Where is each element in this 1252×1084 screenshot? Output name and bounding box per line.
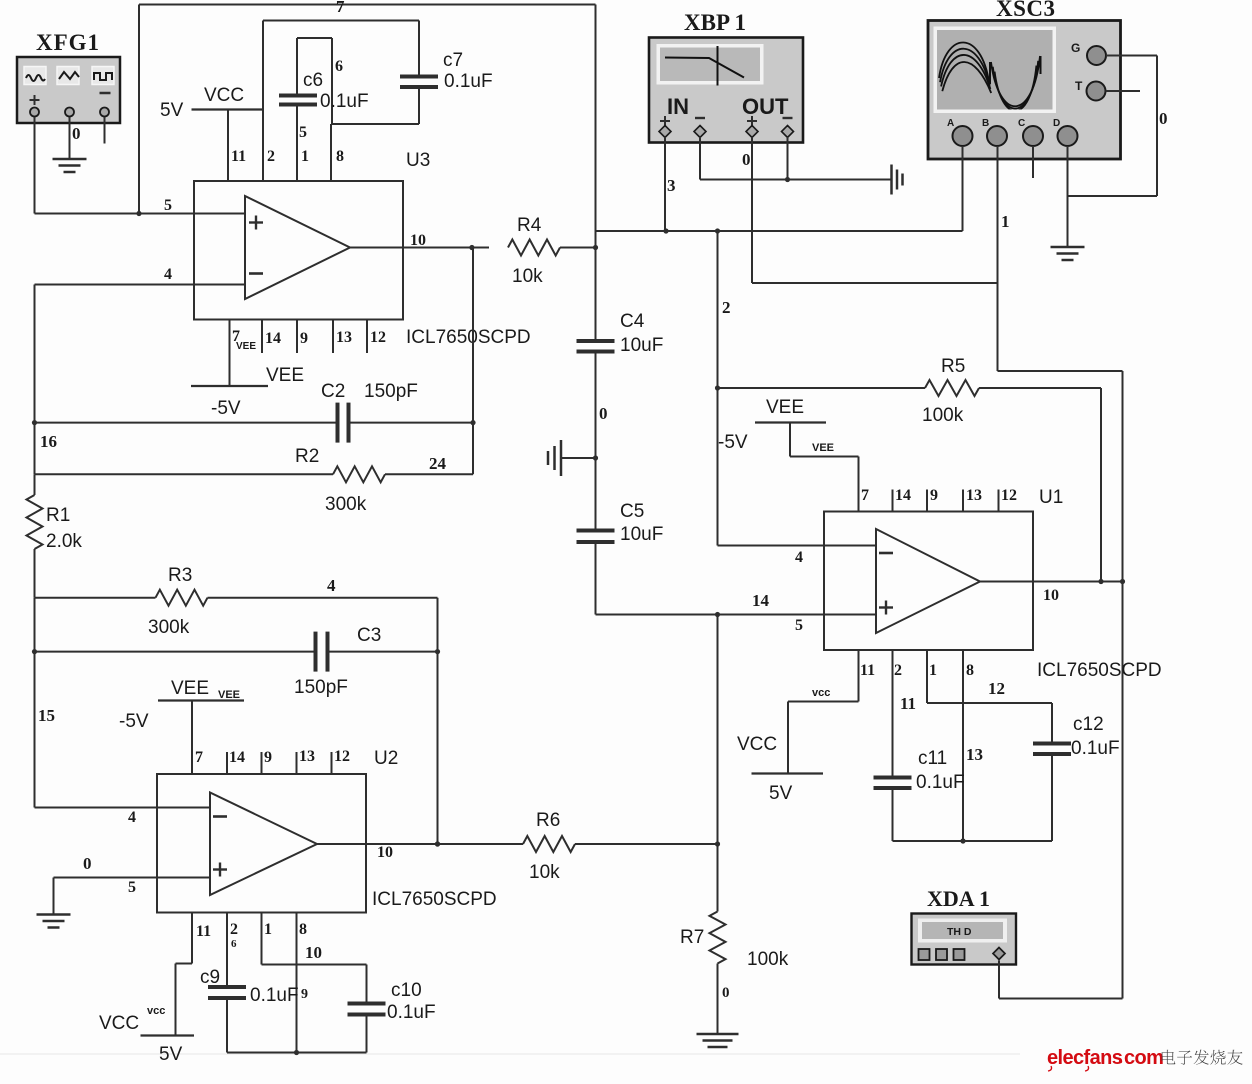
label VCC U1 xyxy=(737,734,777,755)
label c11 xyxy=(918,748,947,769)
svg-text:9: 9 xyxy=(301,987,308,1002)
svg-text:12: 12 xyxy=(334,748,350,765)
wire c10 down xyxy=(366,1015,368,1053)
svg-text:VEE: VEE xyxy=(236,341,256,352)
wire c6 top rectangle xyxy=(297,38,332,124)
wire c7 bottom lead xyxy=(418,87,420,124)
svg-text:10: 10 xyxy=(377,844,393,861)
svg-text:14: 14 xyxy=(895,487,911,504)
svg-text:10k: 10k xyxy=(529,862,560,883)
node 4 label R3 xyxy=(327,576,336,595)
pin labels U2 bottom xyxy=(196,921,307,940)
label XFG1 xyxy=(36,30,100,55)
node 4 pin label U1 xyxy=(795,549,803,566)
svg-text:G: G xyxy=(1071,41,1080,55)
wire net1 row OUT+ to B xyxy=(752,282,998,284)
svg-text:c11: c11 xyxy=(918,748,947,769)
svg-text:100k: 100k xyxy=(747,949,789,970)
svg-text:2: 2 xyxy=(230,921,238,938)
svg-text:c10: c10 xyxy=(391,980,422,1001)
svg-text:11: 11 xyxy=(900,694,916,713)
svg-text:5: 5 xyxy=(299,124,307,141)
wire C2 row left xyxy=(35,422,338,424)
watermark chinese 电子发烧友 xyxy=(1162,1050,1243,1065)
wire U1 pin1 net12 row xyxy=(927,702,1052,704)
svg-text:VEE: VEE xyxy=(218,689,240,701)
svg-text:VCC: VCC xyxy=(204,85,244,106)
pin labels U1 top xyxy=(861,487,1017,504)
svg-text:7: 7 xyxy=(336,0,345,16)
node 0 XSC3 xyxy=(1159,109,1168,128)
wire VEE to U2 pin7 xyxy=(191,701,193,775)
svg-text:13: 13 xyxy=(966,487,982,504)
label R4 value 10k xyxy=(512,266,543,287)
wire U3 pin 5 input row xyxy=(35,213,195,215)
node 0 XFG1 xyxy=(72,124,81,143)
wire net1 column down to U1 out xyxy=(1120,371,1125,999)
svg-text:6: 6 xyxy=(231,938,237,950)
power VEE bar U1 xyxy=(755,421,826,423)
wire C2 row right xyxy=(349,422,474,424)
wire XBP1 OUT- down xyxy=(787,137,789,180)
pin labels U1 bottom xyxy=(860,662,974,679)
svg-text:R2: R2 xyxy=(295,446,319,467)
svg-text:U3: U3 xyxy=(406,150,430,171)
svg-text:XFG1: XFG1 xyxy=(36,30,100,55)
node 3 label xyxy=(667,176,676,195)
wire net14 column down xyxy=(715,615,720,912)
node 10 label U3 out xyxy=(410,232,426,249)
wire C3 row left xyxy=(35,651,316,653)
ground R7 xyxy=(697,1034,739,1047)
wire ground stub center xyxy=(561,457,596,459)
svg-text:-5V: -5V xyxy=(718,432,748,453)
svg-text:7: 7 xyxy=(861,487,869,504)
node 0 label U2 xyxy=(83,854,92,873)
wire VCC to U3 pin 11 xyxy=(227,110,229,182)
svg-text:VCC: VCC xyxy=(99,1013,139,1034)
svg-text:R7: R7 xyxy=(680,927,704,948)
svg-text:c7: c7 xyxy=(443,50,463,71)
svg-text:1: 1 xyxy=(1001,212,1010,231)
svg-text:12: 12 xyxy=(1001,487,1017,504)
svg-text:0.1uF: 0.1uF xyxy=(1071,738,1120,759)
wire U1 bottom pin stubs xyxy=(859,650,964,841)
label VEE U2 xyxy=(171,678,209,699)
wire XFG1 minus stub xyxy=(104,117,106,144)
label R6 xyxy=(536,810,560,831)
wire U3 pin2 column up xyxy=(262,21,264,182)
svg-text:2: 2 xyxy=(267,148,275,165)
capacitor c10 xyxy=(348,1004,386,1015)
power VCC bar U2 xyxy=(141,1034,195,1036)
ground XBP1 net0 xyxy=(892,165,903,195)
node 12 label U1 xyxy=(988,679,1005,698)
svg-text:8: 8 xyxy=(966,662,974,679)
node 1 label xyxy=(1001,212,1010,231)
label VCC U3 xyxy=(204,85,244,106)
wire XFG1 plus output down xyxy=(34,117,36,214)
svg-text:XBP 1: XBP 1 xyxy=(684,10,746,35)
label C5 value 10uF xyxy=(620,524,663,545)
wire c11 down xyxy=(892,788,894,841)
svg-text:2: 2 xyxy=(722,298,731,317)
svg-text:C4: C4 xyxy=(620,311,645,332)
label R2 value 300k xyxy=(325,494,367,515)
wire U2 output row xyxy=(317,841,523,846)
label R3 value 300k xyxy=(148,617,190,638)
capacitor C4 xyxy=(577,341,615,352)
wire c9 down xyxy=(226,998,228,1053)
wire U1 output row xyxy=(980,579,1123,584)
label c6 value 0.1uF xyxy=(320,91,369,112)
svg-text:VEE: VEE xyxy=(171,678,209,699)
label c10 xyxy=(391,980,422,1001)
label U1 xyxy=(1039,487,1063,508)
svg-text:13: 13 xyxy=(299,748,315,765)
wire U3 output row xyxy=(350,245,489,250)
svg-text:9: 9 xyxy=(264,749,272,766)
node 4 pin label U2 xyxy=(128,809,136,826)
label U3 part ICL7650SCPD xyxy=(406,327,531,348)
svg-text:0.1uF: 0.1uF xyxy=(320,91,369,112)
wire XBP1 IN- down xyxy=(699,137,701,180)
svg-text:XSC3: XSC3 xyxy=(996,0,1056,21)
wire U2 pin11 to VCC xyxy=(176,964,193,1036)
wire XBP1 IN+ down to net3 xyxy=(664,137,666,231)
svg-text:vcc: vcc xyxy=(812,687,830,699)
ground U2 input xyxy=(37,915,71,928)
label R3 xyxy=(168,565,192,586)
svg-text:4: 4 xyxy=(128,809,136,826)
label VEE U1 xyxy=(766,397,804,418)
node 5 pin label U2 xyxy=(128,879,136,896)
svg-text:c9: c9 xyxy=(200,967,220,988)
label 5V U1 xyxy=(769,783,793,804)
node 11 label U1 xyxy=(900,694,916,713)
pin labels U2 top xyxy=(195,748,350,766)
svg-text:9: 9 xyxy=(300,330,308,347)
wire U1 pin4 row xyxy=(718,545,877,547)
instrument XDA1 distortion analyzer xyxy=(912,914,1017,965)
node 9 small label xyxy=(301,987,308,1002)
svg-text:0.1uF: 0.1uF xyxy=(387,1002,436,1023)
label R5 xyxy=(941,356,965,377)
svg-text:2: 2 xyxy=(894,662,902,679)
svg-text:12: 12 xyxy=(370,329,386,346)
svg-text:U2: U2 xyxy=(374,748,398,769)
wire inner top horizontal xyxy=(263,20,419,22)
svg-text:10: 10 xyxy=(1043,587,1059,604)
wire top net from XFG1 area to center column xyxy=(139,4,596,6)
svg-text:13: 13 xyxy=(336,329,352,346)
node 24 label xyxy=(429,454,447,473)
svg-text:300k: 300k xyxy=(148,617,190,638)
node 6 label xyxy=(335,58,343,75)
node 0 center xyxy=(599,404,608,423)
wire U1 caps bottom rail xyxy=(893,838,1053,843)
svg-text:XDA 1: XDA 1 xyxy=(927,886,990,911)
power VEE bar U3 xyxy=(191,385,268,387)
svg-text:7: 7 xyxy=(195,749,203,766)
wire U2 pin5 row xyxy=(54,877,158,879)
wire U2 caps bottom rail xyxy=(227,1050,367,1055)
wire U2 top pin stubs xyxy=(227,752,332,774)
label C3 xyxy=(357,625,381,646)
wire net1 row right xyxy=(998,370,1123,372)
label -5V U1 xyxy=(718,432,748,453)
wire pin8 junction horizontal xyxy=(332,123,419,125)
label c12 value 0.1uF xyxy=(1071,738,1120,759)
node 15 label xyxy=(38,706,55,725)
resistor R5 xyxy=(718,380,1102,396)
label R7 xyxy=(680,927,704,948)
wire c12 top lead xyxy=(1051,703,1053,744)
wire left column upper xyxy=(32,285,37,475)
svg-text:300k: 300k xyxy=(325,494,367,515)
op-amp U2 ICL7650SCPD xyxy=(157,774,366,913)
label small vcc U2 xyxy=(147,1005,165,1017)
wire XSC3 T stub xyxy=(1106,90,1141,92)
wire U3 pin 4 input row xyxy=(35,284,195,286)
svg-text:9: 9 xyxy=(930,487,938,504)
svg-text:VEE: VEE xyxy=(766,397,804,418)
node 10 label U1 out xyxy=(1043,587,1059,604)
pin labels U3 top xyxy=(231,148,344,165)
wire net 14 row xyxy=(596,612,825,617)
svg-text:0: 0 xyxy=(722,985,730,1001)
svg-text:4: 4 xyxy=(327,576,336,595)
svg-text:OUT: OUT xyxy=(742,94,789,119)
resistor R6 xyxy=(523,836,718,852)
op-amp U1 ICL7650SCPD xyxy=(824,512,1033,651)
label -5V U3 xyxy=(211,398,241,419)
label C2 xyxy=(321,381,345,402)
ground XSC3 xyxy=(1051,247,1085,260)
svg-text:150pF: 150pF xyxy=(364,381,418,402)
svg-text:12: 12 xyxy=(988,679,1005,698)
label C3 value 150pF xyxy=(294,677,348,698)
faint scan line xyxy=(0,1053,1020,1055)
svg-text:1: 1 xyxy=(264,921,272,938)
label R1 xyxy=(46,505,70,526)
resistor R4 xyxy=(508,240,596,256)
label c12 xyxy=(1073,714,1104,735)
wire c10 top lead xyxy=(366,965,368,1004)
svg-text:IN: IN xyxy=(667,94,689,119)
wire U2 bottom pin stubs xyxy=(192,913,297,1053)
svg-text:R1: R1 xyxy=(46,505,70,526)
svg-text:10uF: 10uF xyxy=(620,524,663,545)
capacitor c9 xyxy=(208,987,246,998)
label c6 xyxy=(303,70,323,91)
label c7 value 0.1uF xyxy=(444,71,493,92)
label c9 value 0.1uF xyxy=(250,985,299,1006)
pin labels U3 bottom xyxy=(232,328,386,347)
node 2 label xyxy=(722,298,731,317)
wire vertical left x139 xyxy=(136,5,141,217)
wire XSC3 C stub xyxy=(1032,146,1034,178)
resistor R2 xyxy=(35,466,474,482)
node 5 label c6 xyxy=(299,124,307,141)
svg-text:0.1uF: 0.1uF xyxy=(250,985,299,1006)
wire XSC3 ground column xyxy=(1156,56,1158,197)
svg-text:0: 0 xyxy=(83,854,92,873)
wire XDA1 to net1 xyxy=(999,961,1123,999)
label C5 xyxy=(620,501,644,522)
label small vcc net U1 xyxy=(812,687,830,699)
wire XBP1 OUT+ down xyxy=(751,137,753,283)
label XBP1 xyxy=(684,10,746,35)
wire U3 bottom pin stubs xyxy=(230,320,368,387)
svg-text:150pF: 150pF xyxy=(294,677,348,698)
svg-text:0: 0 xyxy=(72,124,81,143)
label C4 value 10uF xyxy=(620,335,663,356)
label R1 value 2.0k xyxy=(46,531,82,552)
power VCC bar U1 xyxy=(752,772,824,774)
svg-text:14: 14 xyxy=(229,749,245,766)
capacitor c6 xyxy=(279,96,317,105)
label c10 value 0.1uF xyxy=(387,1002,436,1023)
node 6 small label U2 xyxy=(231,938,237,950)
wire XSC3 B down net1 xyxy=(997,146,999,371)
label R6 value 10k xyxy=(529,862,560,883)
svg-text:VEE: VEE xyxy=(266,365,304,386)
label U2 xyxy=(374,748,398,769)
node 10 label U2 out xyxy=(377,844,393,861)
node 5 pin label U3 xyxy=(164,197,172,214)
wire left column lower xyxy=(32,598,37,808)
wire XSC3 G to right xyxy=(1106,55,1157,57)
wire U1 top pin stubs xyxy=(893,490,999,512)
capacitor c11 xyxy=(874,778,912,789)
wire XSC3 D row xyxy=(1068,195,1158,197)
svg-text:R4: R4 xyxy=(517,215,542,236)
label C2 value 150pF xyxy=(364,381,418,402)
svg-text:24: 24 xyxy=(429,454,447,473)
wire U1 pin11 to VCC xyxy=(788,702,859,774)
svg-text:1: 1 xyxy=(301,148,309,165)
node 13 label U1 xyxy=(966,745,983,764)
capacitor C3 xyxy=(316,632,328,672)
svg-text:10: 10 xyxy=(305,943,322,962)
power VEE bar U2 xyxy=(158,699,244,701)
instrument XFG1 function generator xyxy=(17,57,120,123)
svg-text:5: 5 xyxy=(164,197,172,214)
svg-text:11: 11 xyxy=(860,662,875,679)
svg-text:14: 14 xyxy=(265,330,281,347)
label R7 value 100k xyxy=(747,949,789,970)
svg-text:3: 3 xyxy=(667,176,676,195)
svg-text:C: C xyxy=(1018,118,1025,129)
svg-text:10uF: 10uF xyxy=(620,335,663,356)
wire net3 row to scope A xyxy=(596,228,963,233)
svg-text:C5: C5 xyxy=(620,501,644,522)
svg-text:A: A xyxy=(947,118,954,129)
label 5V U3 supply xyxy=(160,100,184,121)
ground XFG1 common xyxy=(53,159,87,172)
svg-text:8: 8 xyxy=(336,148,344,165)
wire center column x595 xyxy=(593,5,598,342)
wire c12 down xyxy=(1051,754,1053,841)
capacitor C2 xyxy=(338,403,349,443)
wire R5 down to U1 output xyxy=(1100,388,1102,582)
svg-text:0: 0 xyxy=(742,150,751,169)
node 7 top wire xyxy=(336,0,345,16)
label c11 value 0.1uF xyxy=(916,772,965,793)
label 5V U2 xyxy=(159,1044,183,1065)
node 4 pin label U3 xyxy=(164,266,172,283)
svg-text:-5V: -5V xyxy=(211,398,241,419)
label c9 xyxy=(200,967,220,988)
svg-text:R3: R3 xyxy=(168,565,192,586)
label XDA1 xyxy=(927,886,990,911)
svg-text:0.1uF: 0.1uF xyxy=(916,772,965,793)
wire U3 pin 8 up xyxy=(330,124,332,181)
svg-text:0: 0 xyxy=(1159,109,1168,128)
svg-text:100k: 100k xyxy=(922,405,964,426)
svg-text:VEE: VEE xyxy=(812,442,834,454)
label R2 xyxy=(295,446,319,467)
instrument XSC3 oscilloscope xyxy=(928,21,1121,160)
svg-text:B: B xyxy=(982,118,989,129)
svg-text:R5: R5 xyxy=(941,356,965,377)
svg-text:6: 6 xyxy=(335,58,343,75)
svg-text:14: 14 xyxy=(752,591,770,610)
svg-text:4: 4 xyxy=(795,549,803,566)
svg-text:4: 4 xyxy=(164,266,172,283)
svg-text:5: 5 xyxy=(795,617,803,634)
label U1 part ICL7650SCPD xyxy=(1037,660,1162,681)
resistor R1 xyxy=(27,474,43,597)
label small VEE net U3 xyxy=(236,341,256,352)
svg-text:c6: c6 xyxy=(303,70,323,91)
svg-text:11: 11 xyxy=(196,923,211,940)
node 16 label xyxy=(40,432,57,451)
watermark elecfans.com xyxy=(1047,1047,1163,1071)
svg-text:15: 15 xyxy=(38,706,55,725)
svg-text:8: 8 xyxy=(299,921,307,938)
wire c7 top lead xyxy=(418,21,420,77)
wire U2 ground drop xyxy=(53,878,55,915)
svg-text:16: 16 xyxy=(40,432,57,451)
node 5 pin label U1 xyxy=(795,617,803,634)
svg-text:13: 13 xyxy=(966,745,983,764)
wire C4 to C5 xyxy=(593,352,598,531)
svg-text:c12: c12 xyxy=(1073,714,1104,735)
svg-text:ICL7650SCPD: ICL7650SCPD xyxy=(1037,660,1162,681)
wire U2 pin1 net10 row xyxy=(262,964,367,966)
wire c6 bottom to U3 pin1 xyxy=(296,107,298,182)
label VCC U2 xyxy=(99,1013,139,1034)
svg-text:11: 11 xyxy=(231,148,246,165)
svg-text:10: 10 xyxy=(410,232,426,249)
wire R3 column down xyxy=(435,598,440,847)
label VEE U3 xyxy=(266,365,304,386)
svg-text:elecfans: elecfans xyxy=(1047,1047,1123,1069)
label XSC3 xyxy=(996,0,1056,21)
wire XSC3 A down xyxy=(962,146,964,231)
svg-text:TH D: TH D xyxy=(947,926,972,938)
wire C3 row right xyxy=(328,651,438,653)
svg-text:2.0k: 2.0k xyxy=(46,531,82,552)
node 14 label xyxy=(752,591,770,610)
label R4 xyxy=(517,215,542,236)
svg-text:ICL7650SCPD: ICL7650SCPD xyxy=(406,327,531,348)
svg-text:R6: R6 xyxy=(536,810,560,831)
svg-text:5V: 5V xyxy=(160,100,184,121)
wire net2 column xyxy=(715,231,720,546)
